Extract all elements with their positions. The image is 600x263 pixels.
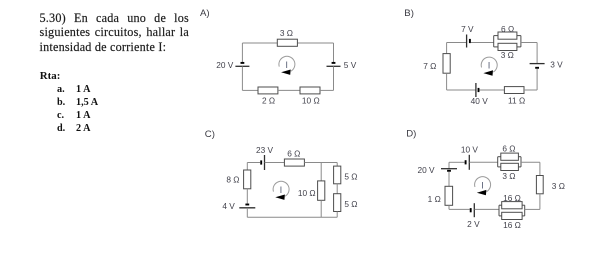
answer a	[57, 84, 65, 95]
wire D left rail bottom	[448, 205, 450, 209]
resistor R15 1ohm (D left)	[445, 186, 453, 205]
svg-text:2 V: 2 V	[467, 219, 480, 229]
resistor R14 3ohm (D parallel bottom)	[501, 163, 519, 170]
svg-text:20 V: 20 V	[418, 165, 436, 175]
wire B left rail lower	[446, 73, 448, 90]
resistor R5 3ohm (B parallel bottom)	[498, 43, 517, 50]
wire C left rail upper	[246, 163, 248, 171]
wire D right rail lower	[539, 194, 541, 210]
svg-text:5 Ω: 5 Ω	[344, 199, 357, 209]
svg-text:40 V: 40 V	[471, 96, 489, 106]
node: parallel-right bracket for R17 16ohm (D parallel top)/R18 16ohm (D parallel bottom)	[524, 205, 526, 216]
resistor R8 6ohm (C top)	[284, 159, 304, 166]
node: parallel-right bracket for R13 6ohm (D parallel top)/R14 3ohm (D parallel bottom)	[520, 157, 522, 167]
wire C middle rail lower	[320, 200, 322, 217]
resistor R9 8ohm (C left)	[244, 170, 251, 189]
wire A top-left segment	[242, 42, 277, 44]
wire D bottom seg 2	[475, 208, 499, 210]
battery V3 7V (B top) (7 V)	[469, 39, 471, 43]
wire C right rail lower	[336, 212, 338, 218]
resistor R6 7ohm (B left)	[443, 54, 450, 74]
svg-text:4 V: 4 V	[222, 201, 235, 211]
resistor R10 10ohm (C middle)	[318, 181, 325, 200]
wire B right rail upper	[536, 43, 538, 64]
wire C left rail mid	[246, 189, 248, 204]
wire A right rail lower	[333, 66, 335, 90]
wire A bottom-right segment	[320, 89, 334, 91]
current loop D	[475, 177, 491, 192]
current arrow D	[477, 190, 487, 195]
current arrow A	[281, 70, 291, 75]
wire A left rail upper	[241, 43, 243, 62]
wire B bottom seg 1	[447, 89, 476, 91]
svg-text:I: I	[488, 60, 491, 71]
battery V7 4V (C left-bottom) (4 V)	[245, 204, 249, 206]
svg-text:10 V: 10 V	[461, 145, 479, 155]
svg-text:3 Ω: 3 Ω	[552, 181, 565, 191]
battery V9 20V (D left) (20 V)	[447, 170, 451, 172]
current arrow C	[275, 195, 285, 200]
wire D top seg 2	[470, 161, 498, 163]
svg-text:1 Ω: 1 Ω	[428, 194, 441, 204]
current loop C	[273, 181, 289, 196]
svg-text:20 V: 20 V	[216, 60, 234, 70]
wire A bottom-left segment	[242, 89, 258, 91]
svg-text:I: I	[481, 179, 484, 190]
svg-text:6 Ω: 6 Ω	[287, 149, 300, 159]
svg-text:A): A)	[200, 8, 210, 19]
wire C top seg 1	[247, 162, 260, 164]
resistor R1 3ohm (A top)	[277, 39, 297, 46]
svg-text:8 Ω: 8 Ω	[226, 175, 239, 185]
svg-text:6 Ω: 6 Ω	[502, 144, 515, 154]
svg-text:2 Ω: 2 Ω	[262, 96, 275, 106]
wire D right rail upper	[539, 162, 541, 175]
svg-text:5 Ω: 5 Ω	[344, 172, 357, 182]
svg-text:5 V: 5 V	[344, 60, 357, 70]
answer b	[57, 97, 65, 108]
wire B top seg 2	[471, 42, 494, 44]
battery V5 40V (B bottom) (40 V)	[478, 88, 480, 92]
svg-text:7 V: 7 V	[461, 24, 474, 34]
svg-text:10 Ω: 10 Ω	[302, 96, 320, 106]
node: parallel-left bracket for R17 16ohm (D parallel top)/R18 16ohm (D parallel bottom)	[498, 205, 500, 216]
wire B right rail lower	[536, 69, 538, 90]
resistor R17 16ohm (D parallel top)	[502, 202, 522, 209]
battery V6 23V (C top) (23 V)	[260, 160, 262, 164]
battery V1 20V (A left) (20 V)	[241, 62, 245, 64]
resistor R7 11ohm (B bottom)	[504, 87, 524, 94]
resistor R12 5ohm (C right lower)	[334, 194, 341, 212]
wire C right rail mid	[336, 184, 338, 194]
svg-text:3 Ω: 3 Ω	[502, 171, 515, 181]
resistor R13 6ohm (D parallel top)	[501, 153, 519, 160]
wire C bottom segment	[247, 216, 337, 218]
resistor R16 3ohm (D right)	[536, 176, 543, 194]
node: parallel-left bracket for R13 6ohm (D parallel top)/R14 3ohm (D parallel bottom)	[497, 157, 499, 167]
resistor R11 5ohm (C right upper)	[334, 166, 341, 184]
resistor R18 16ohm (D parallel bottom)	[502, 212, 522, 219]
resistor R2 2ohm (A bottom-left)	[258, 87, 278, 94]
wire B bottom seg 3	[524, 89, 537, 91]
battery V10 2V (D bottom) (2 V)	[470, 208, 472, 212]
svg-text:B): B)	[404, 8, 414, 19]
svg-text:7 Ω: 7 Ω	[423, 61, 436, 71]
wire C left rail lower	[246, 208, 248, 217]
wire B top seg 1	[447, 42, 467, 44]
svg-text:I: I	[285, 59, 288, 70]
svg-text:C): C)	[205, 129, 215, 140]
wire D top seg 1	[449, 161, 465, 163]
current loop B	[481, 57, 497, 72]
answers heading Rta:	[40, 70, 61, 82]
wire C top seg 2	[265, 162, 285, 164]
wire B bottom seg 2	[480, 89, 505, 91]
svg-text:3 Ω: 3 Ω	[280, 28, 293, 38]
wire A top-right segment	[297, 42, 333, 44]
answer d	[57, 123, 65, 134]
battery V8 10V (D top) (10 V)	[465, 160, 467, 164]
wire C top seg 3	[304, 162, 337, 164]
answer c	[57, 110, 64, 121]
wire D left rail mid	[448, 172, 450, 187]
svg-text:11 Ω: 11 Ω	[508, 95, 525, 105]
problem statement text	[40, 11, 190, 54]
wire B top seg 3	[521, 42, 537, 44]
svg-text:3 Ω: 3 Ω	[501, 50, 514, 60]
battery V2 5V (A right) (5 V)	[332, 62, 336, 64]
resistor R3 10ohm (A bottom-right)	[300, 87, 320, 94]
wire D bottom seg 3	[525, 208, 540, 210]
svg-text:23 V: 23 V	[256, 145, 274, 155]
svg-text:6 Ω: 6 Ω	[501, 24, 514, 34]
battery V4 3V (B right) (3 V)	[535, 67, 539, 69]
wire B left rail upper	[446, 43, 448, 54]
svg-text:3 V: 3 V	[550, 60, 563, 70]
svg-text:I: I	[280, 184, 283, 195]
svg-text:16 Ω: 16 Ω	[503, 193, 521, 203]
wire A bottom-middle segment	[278, 89, 300, 91]
resistor R4 6ohm (B parallel top)	[498, 32, 517, 39]
wire A right rail upper	[333, 43, 335, 62]
current arrow B	[483, 70, 493, 75]
svg-text:16 Ω: 16 Ω	[503, 220, 521, 230]
node: parallel-left bracket for R4 6ohm (B parallel top)/R5 3ohm (B parallel bottom)	[493, 36, 495, 47]
svg-text:D): D)	[406, 128, 416, 139]
wire D top seg 3	[521, 161, 540, 163]
svg-text:10 Ω: 10 Ω	[298, 188, 316, 198]
wire D left rail top	[448, 162, 450, 168]
wire A left rail lower	[241, 66, 243, 90]
wire C middle rail upper	[320, 163, 322, 181]
wire C right rail stub	[336, 163, 338, 167]
current loop A	[279, 56, 295, 71]
node: parallel-right bracket for R4 6ohm (B parallel top)/R5 3ohm (B parallel bottom)	[520, 36, 522, 47]
wire D bottom seg 1	[449, 208, 470, 210]
